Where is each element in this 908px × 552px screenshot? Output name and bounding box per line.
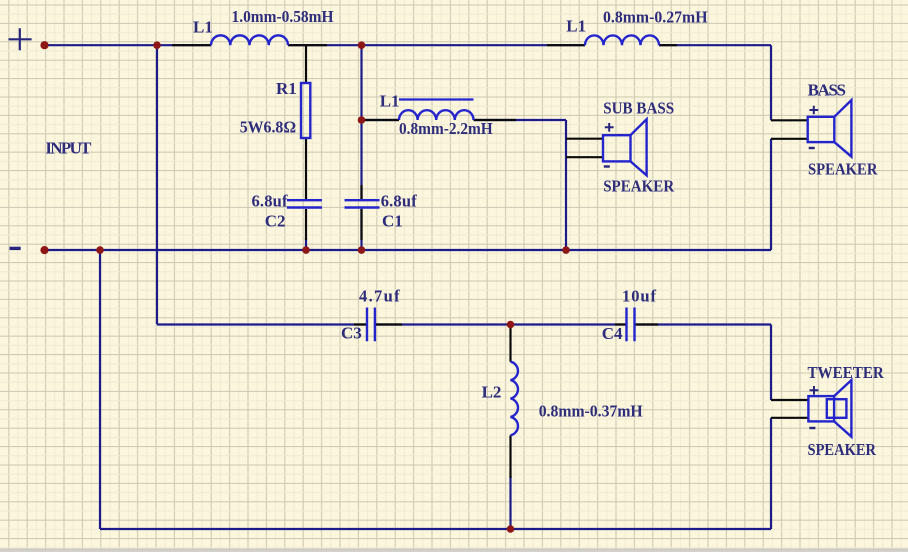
wire top rail + segment 3 — [659, 44, 771, 46]
svg-text:SPEAKER: SPEAKER — [808, 440, 877, 459]
svg-text:6.8uf: 6.8uf — [252, 192, 289, 211]
wire left vertical x=100 — [99, 250, 101, 529]
wire L2 column lower — [509, 476, 511, 529]
pin C1 top — [360, 185, 362, 199]
junction mid L1 branch — [358, 116, 366, 124]
pin L1 mid left — [365, 119, 399, 121]
pin L2 top — [509, 325, 511, 362]
pin SUB BASS + — [566, 138, 603, 140]
svg-text:C3: C3 — [341, 324, 362, 343]
svg-text:4.7uf: 4.7uf — [359, 287, 400, 306]
junction minus rail x=100 — [96, 246, 104, 254]
svg-text:0.8mm-0.27mH: 0.8mm-0.27mH — [603, 8, 708, 27]
junction mid rail L2 top — [507, 321, 515, 329]
capacitor C1 plates — [345, 200, 380, 207]
pin L1 top-right left — [547, 44, 585, 46]
pin TWEETER - — [771, 417, 808, 419]
svg-text:L2: L2 — [482, 382, 502, 401]
svg-text:INPUT: INPUT — [45, 139, 92, 158]
pin L2 bottom — [509, 435, 511, 478]
wire minus rail — [45, 249, 772, 251]
svg-text:R1: R1 — [276, 79, 297, 98]
svg-text:L1: L1 — [380, 92, 400, 111]
inductor L1 top-right coil — [585, 35, 659, 45]
pin C4 right — [636, 323, 659, 325]
wire SUB BASS - down to minus rail — [565, 157, 567, 250]
wire mid L1 branch right to SUB BASS — [474, 120, 567, 157]
svg-text:SPEAKER: SPEAKER — [603, 177, 675, 196]
pin BASS + — [771, 119, 808, 121]
wire C1 column lower — [360, 209, 362, 250]
pin R1 top — [305, 45, 307, 83]
speaker SUB BASS + mark — [605, 123, 614, 132]
svg-text:1.0mm-0.58mH: 1.0mm-0.58mH — [232, 7, 334, 26]
pin C4 left — [615, 323, 626, 325]
pin R1 bottom / C2 top — [305, 139, 307, 199]
wire bottom rail — [100, 528, 771, 530]
wire C1 column upper — [360, 45, 362, 199]
pin L1 top-right right — [659, 44, 677, 46]
svg-text:L1: L1 — [566, 17, 586, 36]
wire vertical branch x=157 down to mid rail — [156, 45, 158, 324]
pin C2 bottom — [305, 209, 307, 240]
wire tweeter - vertical to bottom rail — [770, 418, 772, 529]
speaker BASS - mark — [809, 147, 815, 149]
speaker BASS symbol — [808, 100, 852, 157]
pin C3 left — [354, 323, 366, 325]
input - terminal symbol — [10, 247, 21, 250]
wire mid L1 branch left — [362, 119, 400, 121]
junction bottom rail L2 — [507, 525, 515, 533]
wire R1 column lower stub — [305, 238, 307, 250]
inductor L2 coil — [511, 362, 518, 436]
wire BASS - vertical — [770, 139, 772, 250]
wire top rail + segment 2 — [288, 44, 585, 46]
svg-text:C1: C1 — [382, 211, 403, 230]
resistor R1 body — [301, 83, 310, 138]
speaker TWEETER + mark — [810, 386, 819, 395]
junction top rail x=361.5 — [358, 41, 366, 49]
input + terminal symbol — [9, 28, 32, 50]
svg-text:C4: C4 — [602, 324, 623, 343]
speaker BASS + mark — [810, 106, 819, 115]
junction minus rail x=306 — [302, 246, 310, 254]
pin L1 mid right — [474, 119, 517, 121]
speaker TWEETER symbol — [808, 380, 851, 437]
inductor L1 mid coil — [399, 110, 474, 120]
pin SUB BASS - — [566, 156, 603, 158]
capacitor C4 plates — [627, 308, 635, 342]
speaker SUB BASS - mark — [604, 165, 610, 167]
wire mid rail segment 3 — [635, 323, 771, 325]
junction top rail x=157 — [153, 41, 161, 49]
junction input - — [40, 246, 48, 254]
svg-text:L1: L1 — [193, 18, 213, 37]
svg-text:5W6.8Ω: 5W6.8Ω — [240, 117, 296, 136]
junction minus rail x=566 — [562, 246, 570, 254]
pin L1 top-left left — [172, 44, 211, 46]
pin L1 top-left right — [288, 44, 327, 46]
speaker SUB BASS symbol — [603, 119, 647, 175]
svg-text:SUB BASS: SUB BASS — [603, 98, 674, 117]
junction input + — [40, 41, 48, 49]
svg-text:TWEETER: TWEETER — [808, 363, 885, 382]
inductor L1 top-left coil — [211, 35, 288, 45]
wire tweeter + vertical — [770, 325, 772, 401]
svg-text:10uf: 10uf — [622, 287, 657, 306]
wire mid rail segment 1 — [157, 323, 366, 325]
pin BASS - — [771, 138, 808, 140]
svg-text:BASS: BASS — [808, 80, 846, 99]
wire mid rail segment 2 — [376, 323, 626, 325]
pin C3 right — [376, 323, 402, 325]
wire BASS + vertical — [770, 45, 772, 120]
pin C1 bottom — [360, 209, 362, 240]
pin TWEETER + — [771, 399, 808, 401]
svg-text:0.8mm-2.2mH: 0.8mm-2.2mH — [399, 119, 493, 138]
speaker TWEETER - mark — [809, 427, 815, 429]
junction minus rail x=361.5 — [358, 246, 366, 254]
svg-text:6.8uf: 6.8uf — [381, 192, 418, 211]
capacitor C2 plates — [287, 200, 322, 207]
wire top rail + segment 1 — [45, 44, 211, 46]
svg-text:SPEAKER: SPEAKER — [808, 160, 878, 179]
svg-text:0.8mm-0.37mH: 0.8mm-0.37mH — [539, 401, 643, 420]
inductor L1 mid core bar — [399, 98, 474, 100]
capacitor C3 plates — [367, 308, 375, 342]
svg-text:C2: C2 — [265, 211, 286, 230]
